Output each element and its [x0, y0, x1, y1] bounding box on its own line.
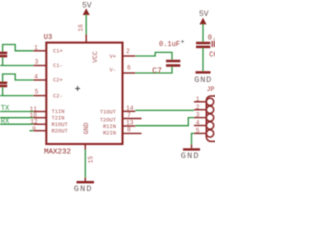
svg-text:15: 15 — [87, 156, 94, 164]
svg-text:C2-: C2- — [53, 93, 63, 99]
svg-text:5: 5 — [35, 89, 39, 96]
wire connector pin5 to ground — [192, 133, 195, 145]
svg-text:V-: V- — [110, 68, 116, 74]
ground stem (connector) — [191, 145, 193, 149]
capacitor C6 — [196, 43, 210, 47]
wire pin5 row — [0, 95, 33, 97]
right pin numbers — [126, 48, 134, 134]
svg-text:C6: C6 — [209, 51, 215, 59]
wire C1 to pin3 row — [2, 57, 4, 65]
svg-text:T2IN: T2IN — [52, 115, 65, 121]
wire pin9 (short) — [30, 130, 34, 132]
ground stem (below IC) — [84, 178, 86, 182]
wire RX to pin12 — [0, 123, 33, 125]
svg-text:13: 13 — [126, 119, 134, 126]
svg-text:T2OUT: T2OUT — [100, 118, 117, 124]
right pin names — [100, 54, 117, 137]
wire pin4 to C2 — [3, 74, 34, 82]
svg-text:1: 1 — [34, 44, 38, 51]
svg-text:5V: 5V — [82, 2, 92, 11]
svg-text:4: 4 — [196, 120, 200, 127]
wire C7 to pin6 V- — [135, 67, 172, 73]
ground (connector) — [183, 148, 200, 150]
connector pin stubs — [194, 102, 206, 134]
svg-text:T1OUT: T1OUT — [100, 110, 117, 116]
svg-text:U3: U3 — [44, 34, 52, 42]
ground (below IC) — [77, 181, 95, 183]
supply 5V arrow (top right) — [200, 18, 207, 25]
capacitor C1 — [0, 53, 7, 56]
svg-text:3: 3 — [196, 112, 200, 119]
wire pin10 — [0, 117, 33, 119]
svg-text:8: 8 — [127, 127, 131, 134]
svg-text:C2+: C2+ — [53, 78, 63, 84]
svg-text:14: 14 — [126, 105, 134, 112]
svg-text:2: 2 — [126, 48, 130, 55]
svg-text:T1IN: T1IN — [52, 109, 65, 115]
svg-text:R1IN: R1IN — [103, 124, 116, 130]
svg-text:C7: C7 — [152, 67, 162, 76]
svg-text:5: 5 — [196, 128, 200, 135]
wire TX to pin11 — [0, 111, 33, 113]
wire 5V to C6 — [202, 24, 204, 42]
supply 5V arrow (top of IC, pin 16) — [83, 8, 90, 15]
svg-text:MAX232: MAX232 — [44, 148, 71, 156]
IC origin cross — [75, 86, 80, 91]
left pin numbers — [30, 44, 39, 133]
wire pin15 to ground — [84, 149, 86, 178]
svg-text:R2IN: R2IN — [103, 131, 116, 137]
svg-text:3: 3 — [35, 59, 39, 66]
svg-text:0.1uF: 0.1uF — [159, 41, 180, 49]
svg-text:GND: GND — [74, 184, 93, 193]
pin 16 stub (top) — [85, 34, 87, 43]
connector contacts (circles) — [206, 98, 213, 137]
connector pin numbers — [196, 96, 200, 135]
pin 15 stub (bottom) — [84, 144, 86, 150]
svg-text:C1+: C1+ — [53, 49, 63, 55]
svg-text:9: 9 — [32, 126, 36, 133]
left pin stubs (1,3,4,5,11,10,12,9) — [33, 51, 46, 131]
svg-text:4: 4 — [34, 74, 38, 81]
ground (top right) — [196, 71, 211, 73]
capacitor at right edge (cut off) — [212, 41, 214, 47]
svg-text:V+: V+ — [110, 54, 116, 60]
svg-text:GND: GND — [181, 151, 200, 161]
svg-text:R1OUT: R1OUT — [52, 122, 69, 128]
capacitor C2 — [0, 83, 7, 86]
svg-text:5V: 5V — [199, 10, 209, 19]
wire pin2 V+ to C7 — [135, 52, 172, 59]
svg-text:VCC: VCC — [92, 51, 99, 63]
svg-text:2: 2 — [196, 104, 200, 111]
svg-text:6: 6 — [127, 65, 131, 72]
svg-text:JP: JP — [207, 86, 215, 93]
capacitor C7 — [166, 61, 180, 66]
wire C6 to GND — [202, 48, 204, 71]
svg-text:16: 16 — [77, 24, 84, 32]
wire C2 to pin5 row — [2, 87, 4, 95]
left pin names — [52, 49, 69, 135]
right pin stubs (2,6,14,7,13,8) — [123, 56, 142, 133]
wire 5V to pin16 — [85, 14, 87, 34]
wire pin14 T1OUT to connector pin2 — [135, 109, 194, 111]
IC U3 MAX232 body — [46, 43, 122, 144]
svg-text:R2OUT: R2OUT — [52, 128, 69, 134]
connector JP1 body — [206, 96, 220, 141]
svg-text:C1-: C1- — [53, 63, 63, 69]
C7 origin cross — [181, 40, 184, 43]
svg-text:GND: GND — [194, 75, 212, 85]
svg-text:GND: GND — [83, 122, 90, 134]
svg-text:7: 7 — [127, 112, 131, 119]
wire pin1 to C1 — [3, 45, 34, 52]
wire pin3 row — [0, 65, 33, 67]
wire pin13 R1IN to connector pin3 — [135, 118, 194, 126]
svg-text:1: 1 — [196, 96, 200, 103]
